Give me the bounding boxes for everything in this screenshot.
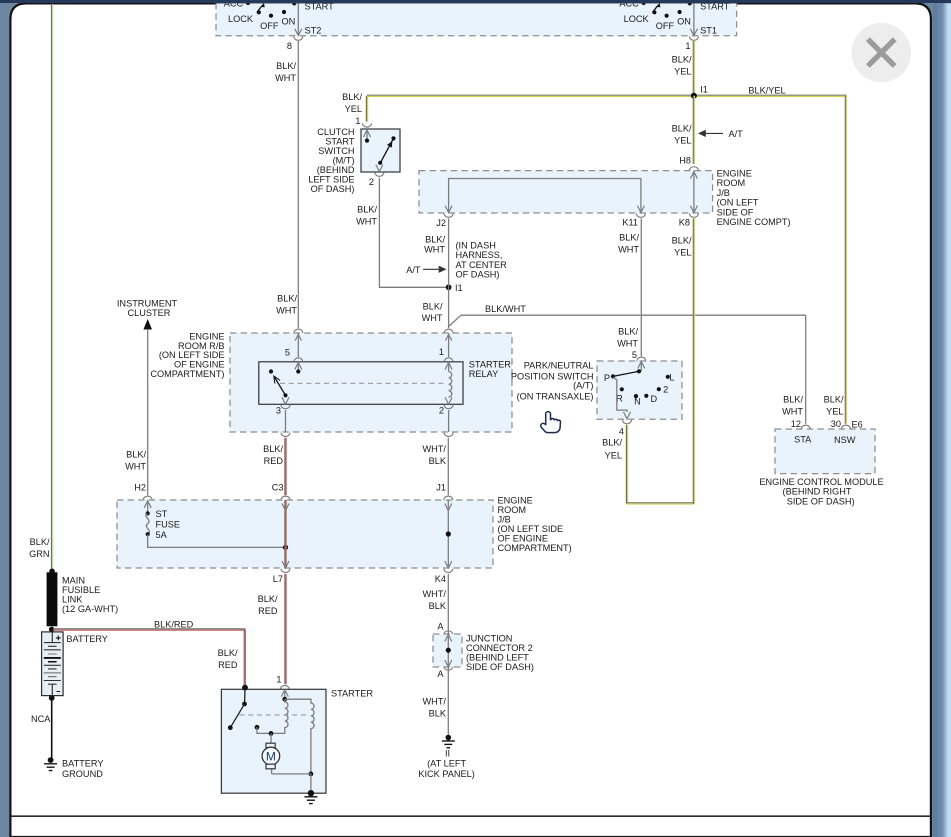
clutch switch contacts — [364, 129, 396, 176]
svg-text:(ON LEFT SIDE: (ON LEFT SIDE — [498, 524, 564, 534]
svg-text:YEL: YEL — [345, 104, 362, 114]
wire branch diagonal to BLK/WHT run — [449, 315, 461, 326]
battery ground label — [62, 758, 104, 779]
svg-text:(IN DASH: (IN DASH — [456, 240, 496, 250]
svg-text:BLK/: BLK/ — [276, 61, 296, 71]
node I1 (mid) — [446, 283, 463, 293]
battery — [42, 632, 64, 696]
svg-text:GRN: GRN — [29, 549, 49, 559]
diagram frame bottom line — [12, 815, 931, 817]
starter case ground — [304, 790, 317, 804]
ECM box — [775, 429, 875, 474]
svg-text:FUSE: FUSE — [156, 519, 181, 529]
node I1 (top) — [691, 85, 708, 99]
P/N switch contacts — [611, 362, 670, 399]
svg-text:12: 12 — [791, 419, 801, 429]
junction connector 2 label — [466, 633, 534, 672]
svg-text:WHT: WHT — [782, 406, 803, 416]
junction connector 2 box — [433, 634, 462, 667]
svg-text:BLK/: BLK/ — [783, 394, 803, 404]
wire BLK/WHT J2 down through I1 to relay pin1 — [424, 218, 449, 328]
svg-text:I1: I1 — [700, 85, 708, 95]
ST fuse — [144, 500, 180, 540]
svg-text:1: 1 — [276, 674, 281, 684]
engine room R/B label — [150, 331, 224, 379]
svg-text:ENGINE: ENGINE — [498, 495, 533, 505]
svg-text:L7: L7 — [273, 574, 283, 584]
svg-text:K11: K11 — [622, 218, 638, 228]
H2 connector — [134, 482, 152, 500]
relay pin bumps — [294, 333, 453, 362]
P/N switch pin4 internal wire — [614, 377, 632, 423]
engine room R/B box — [230, 333, 512, 432]
svg-text:BLK/: BLK/ — [342, 92, 362, 102]
svg-text:YEL: YEL — [826, 406, 843, 416]
svg-text:BLK/: BLK/ — [277, 294, 297, 304]
svg-text:HARNESS,: HARNESS, — [456, 250, 503, 260]
svg-text:COMPARTMENT): COMPARTMENT) — [150, 369, 224, 379]
BLK/WHT label above relay pin1 — [422, 302, 443, 323]
svg-text:4: 4 — [619, 426, 624, 436]
wire BLK/WHT K11 to P/N switch pin5 — [617, 218, 641, 356]
svg-text:J/B: J/B — [717, 188, 730, 198]
svg-text:ON: ON — [282, 16, 296, 26]
svg-text:BLK/: BLK/ — [30, 537, 50, 547]
wire BLK/GRN from top — [29, 4, 53, 571]
svg-text:START: START — [325, 137, 355, 147]
relay bottom bumps — [281, 405, 453, 409]
svg-text:(BEHIND RIGHT: (BEHIND RIGHT — [783, 487, 852, 497]
svg-text:1: 1 — [685, 41, 690, 51]
svg-text:ST2: ST2 — [305, 26, 322, 36]
svg-text:SIDE OF DASH): SIDE OF DASH) — [466, 662, 534, 672]
svg-text:RED: RED — [218, 660, 238, 670]
in-dash harness note — [456, 240, 508, 279]
R/B bottom bumps — [281, 433, 453, 437]
svg-text:J2: J2 — [436, 218, 446, 228]
svg-text:BLK/: BLK/ — [258, 594, 278, 604]
svg-text:BLK/: BLK/ — [423, 302, 443, 312]
starter box — [221, 689, 326, 793]
svg-text:J1: J1 — [436, 482, 446, 492]
ground II location label — [418, 758, 475, 779]
svg-text:(12 GA-WHT): (12 GA-WHT) — [62, 604, 118, 614]
wire BLK/RED C3 to L7 inside J/B — [282, 500, 289, 568]
svg-text:ST1: ST1 — [700, 26, 717, 36]
starter solenoid wiring — [257, 690, 314, 793]
svg-text:BLK/: BLK/ — [357, 204, 377, 214]
wire BLK/YEL down to ECM pin30 — [824, 96, 847, 424]
battery ground — [44, 757, 57, 770]
wire BLK/YEL pin1 to node I1 — [672, 41, 695, 96]
svg-text:ST: ST — [156, 509, 168, 519]
starter relay label — [469, 359, 511, 379]
svg-text:BLK/: BLK/ — [672, 54, 692, 64]
svg-text:BLK: BLK — [429, 601, 447, 611]
svg-text:LOCK: LOCK — [624, 14, 650, 24]
svg-text:OF ENGINE: OF ENGINE — [498, 533, 549, 543]
wire BLK/RED L7 to starter pin1 — [258, 574, 287, 684]
J/B internal J2-K11 jumper — [444, 179, 645, 218]
svg-text:H2: H2 — [134, 482, 146, 492]
svg-text:BLK/: BLK/ — [425, 234, 445, 244]
svg-text:C3: C3 — [272, 482, 284, 492]
ECM label — [759, 477, 883, 506]
svg-text:RED: RED — [258, 606, 278, 616]
park/neutral position switch box — [597, 361, 682, 419]
P/N switch position labels — [604, 372, 675, 406]
P/N switch pin 5 — [632, 350, 646, 361]
svg-text:INSTRUMENT: INSTRUMENT — [117, 298, 178, 308]
svg-text:E6: E6 — [852, 419, 863, 429]
junction connector 2 bottom bump — [444, 667, 453, 670]
svg-text:WHT/: WHT/ — [423, 589, 447, 599]
svg-text:YEL: YEL — [605, 450, 622, 460]
J/B internal H8-K8 wire — [689, 171, 698, 218]
relay pin3 wire to R/B edge — [285, 410, 287, 432]
svg-text:BLK/: BLK/ — [126, 449, 146, 459]
svg-text:(A/T): (A/T) — [573, 380, 593, 390]
wire BLK/RED relay pin3 to C3 — [263, 438, 286, 495]
svg-text:BLK/: BLK/ — [619, 232, 639, 242]
svg-text:LOCK: LOCK — [228, 14, 254, 24]
svg-text:A/T: A/T — [729, 129, 744, 139]
svg-text:A/T: A/T — [406, 265, 421, 275]
wire BLK/WHT clutch pin2 to node I1 — [356, 178, 446, 287]
svg-text:ON: ON — [677, 16, 691, 26]
relay switch — [269, 363, 302, 405]
svg-text:OFF: OFF — [260, 21, 279, 31]
svg-text:JUNCTION: JUNCTION — [466, 633, 512, 643]
svg-text:M: M — [266, 750, 276, 764]
park/neutral position switch label — [511, 360, 594, 401]
svg-text:CLUTCH: CLUTCH — [317, 127, 354, 137]
svg-text:PARK/NEUTRAL: PARK/NEUTRAL — [524, 360, 594, 370]
svg-text:2: 2 — [663, 384, 668, 394]
svg-text:H8: H8 — [679, 155, 691, 165]
svg-text:GROUND: GROUND — [62, 769, 103, 779]
svg-text:(M/T): (M/T) — [333, 156, 355, 166]
svg-text:BLK/: BLK/ — [824, 394, 844, 404]
svg-text:NSW: NSW — [834, 435, 856, 445]
engine room J/B box (lower) — [117, 500, 493, 568]
scrollbar strip — [933, 3, 951, 837]
ground II — [442, 735, 455, 759]
instrument cluster label — [117, 298, 178, 318]
K4 connector — [435, 569, 453, 584]
svg-text:BATTERY: BATTERY — [62, 758, 104, 768]
ignition switch SW2 ST1 wire — [689, 0, 698, 40]
svg-text:CONNECTOR 2: CONNECTOR 2 — [466, 643, 533, 653]
ignition switch box (dashed) — [216, 0, 737, 36]
svg-text:WHT: WHT — [125, 461, 146, 471]
relay pin2 wire to R/B edge — [448, 410, 450, 432]
wire BLK/YEL I1 down to H8 — [672, 96, 695, 164]
svg-text:ROOM: ROOM — [717, 178, 746, 188]
main fusible link — [47, 569, 58, 633]
svg-text:BLK/: BLK/ — [672, 235, 692, 245]
svg-text:P: P — [604, 373, 610, 383]
svg-text:30: 30 — [831, 419, 841, 429]
svg-text:BLK/RED: BLK/RED — [154, 619, 194, 629]
svg-text:MAIN: MAIN — [62, 575, 85, 585]
svg-text:SWITCH: SWITCH — [318, 146, 354, 156]
svg-text:2: 2 — [369, 177, 374, 187]
svg-text:A: A — [437, 622, 444, 632]
wire NCA battery negative — [31, 695, 55, 759]
svg-text:COMPARTMENT): COMPARTMENT) — [498, 543, 572, 553]
starter relay box — [259, 362, 463, 405]
ignition switch SW2 position labels — [619, 0, 729, 36]
svg-text:STARTER: STARTER — [331, 688, 373, 698]
svg-text:(BEHIND: (BEHIND — [317, 165, 355, 175]
svg-text:LINK: LINK — [62, 594, 83, 604]
svg-text:CLUSTER: CLUSTER — [128, 308, 171, 318]
R/B top connector bumps — [294, 329, 453, 333]
clutch start switch label — [308, 127, 355, 194]
svg-text:WHT: WHT — [276, 306, 297, 316]
svg-text:BLK/YEL: BLK/YEL — [748, 85, 785, 95]
svg-text:BATTERY: BATTERY — [66, 634, 108, 644]
svg-text:SIDE OF DASH): SIDE OF DASH) — [787, 496, 855, 506]
wire BLK/RED battery to starter — [53, 619, 245, 686]
relay coil — [445, 363, 452, 405]
svg-text:BLK: BLK — [429, 456, 447, 466]
svg-text:(ON LEFT: (ON LEFT — [717, 198, 759, 208]
wire BLK/YEL I1 to clutch switch pin1 — [342, 92, 694, 122]
svg-text:N: N — [634, 397, 641, 407]
ignition switch SW1 contacts (left group) — [246, 1, 296, 18]
svg-text:K4: K4 — [435, 574, 446, 584]
starter motor M — [262, 743, 280, 769]
svg-text:WHT: WHT — [356, 216, 377, 226]
svg-text:(BEHIND LEFT: (BEHIND LEFT — [466, 652, 529, 662]
A/T arrow pointing at BLK/YEL wire — [698, 129, 743, 139]
svg-text:D: D — [650, 394, 657, 404]
wire BLK/YEL I1 right run — [694, 85, 847, 96]
svg-text:1: 1 — [439, 347, 444, 357]
svg-text:FUSIBLE: FUSIBLE — [62, 585, 100, 595]
svg-text:NCA: NCA — [31, 714, 51, 724]
ignition switch SW2 contacts (right group) — [642, 1, 692, 18]
svg-text:BLK/WHT: BLK/WHT — [485, 304, 526, 314]
wire WHT/BLK K4 to junction connector — [423, 574, 449, 634]
svg-text:WHT: WHT — [617, 338, 638, 348]
svg-text:STA: STA — [794, 434, 812, 444]
svg-text:BLK/: BLK/ — [602, 437, 622, 447]
svg-text:LEFT SIDE: LEFT SIDE — [308, 175, 354, 185]
svg-text:WHT: WHT — [618, 244, 639, 254]
starter mechanical link (dashed) — [239, 714, 309, 716]
svg-text:3: 3 — [276, 405, 281, 415]
hand cursor — [541, 412, 561, 433]
svg-text:BLK/: BLK/ — [672, 124, 692, 134]
svg-text:WHT/: WHT/ — [423, 444, 447, 454]
svg-text:OFF: OFF — [656, 21, 675, 31]
close button — [852, 23, 911, 82]
ECM top bumps — [801, 425, 850, 429]
svg-text:WHT: WHT — [422, 313, 443, 323]
svg-text:BLK/: BLK/ — [618, 326, 638, 336]
instrument cluster arrow — [143, 319, 152, 330]
svg-text:WHT/: WHT/ — [423, 696, 447, 706]
wire WHT/BLK to ground II — [423, 667, 449, 736]
engine room J/B label (lower) — [498, 495, 572, 553]
svg-text:WHT: WHT — [424, 244, 445, 254]
svg-text:5A: 5A — [156, 530, 168, 540]
svg-text:(ON TRANSAXLE): (ON TRANSAXLE) — [517, 391, 594, 401]
top chrome bar — [0, 0, 951, 3]
svg-text:YEL: YEL — [674, 247, 691, 257]
wire BLK/WHT pin8 to relay pin5 — [275, 41, 298, 328]
wire WHT/BLK relay pin2 to J1 — [423, 438, 449, 495]
J1 connector — [436, 482, 453, 500]
A/T arrow pointing at BLK/WHT wire — [406, 265, 446, 275]
svg-text:WHT: WHT — [275, 73, 296, 83]
svg-text:II: II — [445, 748, 450, 758]
fuse output wire to BLK/RED net — [148, 534, 288, 550]
svg-text:ENGINE COMPT): ENGINE COMPT) — [717, 217, 791, 227]
ignition switch SW1 ST2 wire — [294, 0, 303, 40]
svg-text:YEL: YEL — [674, 66, 691, 76]
engine room J/B label — [717, 169, 791, 228]
wire BLK/YEL pin4 to K8 run — [602, 218, 694, 504]
svg-text:STARTER: STARTER — [469, 359, 511, 369]
ignition switch SW1 position labels — [224, 0, 334, 36]
svg-text:2: 2 — [439, 405, 444, 415]
engine room J/B box (upper) — [419, 171, 713, 213]
clutch switch pin 1 — [355, 116, 371, 127]
svg-text:OF DASH): OF DASH) — [311, 184, 355, 194]
svg-text:BLK/: BLK/ — [263, 444, 283, 454]
svg-text:AT CENTER: AT CENTER — [456, 260, 508, 270]
svg-text:YEL: YEL — [674, 136, 691, 146]
wire WHT/BLK J1 to K4 inside J/B — [445, 500, 452, 568]
svg-text:RELAY: RELAY — [469, 369, 498, 379]
svg-text:SIDE OF: SIDE OF — [717, 207, 754, 217]
wire BLK/WHT to H2 — [125, 329, 148, 495]
relay mechanical link (dashed) — [280, 382, 444, 384]
clutch start switch box — [361, 129, 400, 172]
svg-text:KICK PANEL): KICK PANEL) — [418, 769, 475, 779]
svg-text:OF DASH): OF DASH) — [456, 270, 500, 280]
svg-text:ENGINE CONTROL MODULE: ENGINE CONTROL MODULE — [759, 477, 883, 487]
svg-text:K8: K8 — [679, 218, 690, 228]
svg-text:RED: RED — [264, 456, 284, 466]
svg-text:(AT LEFT: (AT LEFT — [427, 758, 466, 768]
starter switch contacts — [228, 685, 259, 730]
svg-text:I1: I1 — [455, 283, 463, 293]
svg-text:A: A — [437, 669, 444, 679]
ECM pin names — [794, 434, 856, 445]
junction connector 2 top bump — [444, 631, 453, 634]
svg-text:L: L — [669, 372, 674, 382]
svg-text:ROOM: ROOM — [498, 505, 527, 515]
H8 connector label — [679, 155, 698, 170]
wire BLK/WHT run to ECM pin12 — [461, 304, 806, 424]
L7 connector — [273, 569, 290, 584]
svg-text:BLK/: BLK/ — [218, 648, 238, 658]
main fusible link label — [62, 575, 118, 614]
svg-text:5: 5 — [632, 350, 637, 360]
svg-text:BLK: BLK — [429, 708, 447, 718]
svg-text:ENGINE: ENGINE — [717, 169, 752, 179]
C3 connector — [272, 482, 290, 500]
svg-text:8: 8 — [287, 41, 292, 51]
svg-text:1: 1 — [355, 116, 360, 126]
svg-text:J/B: J/B — [498, 514, 511, 524]
starter pin 1 — [276, 674, 289, 689]
svg-text:5: 5 — [285, 348, 290, 358]
junction connector 2 internal wire — [445, 634, 452, 667]
